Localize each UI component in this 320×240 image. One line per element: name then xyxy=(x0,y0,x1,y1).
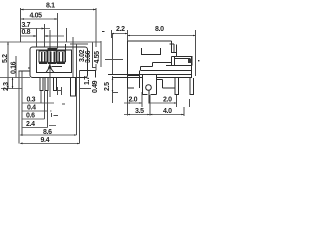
dim 2.3 vertical xyxy=(12,78,14,89)
svg-text:4.05: 4.05 xyxy=(30,13,43,20)
dim 8.6 line xyxy=(21,134,77,136)
dash y104 right xyxy=(62,103,65,105)
svg-text:2.0: 2.0 xyxy=(163,97,172,104)
svg-text:0.3: 0.3 xyxy=(27,97,36,104)
dim 0.3 line xyxy=(22,102,55,104)
arrow 5.2 ends xyxy=(7,42,9,89)
dim 8.1 line xyxy=(21,9,97,11)
side step right of block xyxy=(157,80,176,89)
svg-text:0.49: 0.49 xyxy=(92,80,99,93)
side step y66.5 xyxy=(141,67,153,71)
side handle step xyxy=(172,41,177,57)
right ear xyxy=(80,71,97,78)
tick x51.5 xyxy=(51,113,53,117)
side bracket top y70.5 xyxy=(141,70,192,72)
side bracket line y74.5 xyxy=(108,74,192,76)
svg-text:4.55: 4.55 xyxy=(94,51,101,64)
front inner rect xyxy=(37,50,72,73)
ext x66.5 xyxy=(66,28,68,42)
arrow 2.3 ends xyxy=(12,78,14,89)
ext x76.5 xyxy=(76,44,78,135)
svg-text:5.2: 5.2 xyxy=(2,54,9,63)
window 1 frame xyxy=(39,51,47,62)
dim 5.2 vertical xyxy=(7,42,9,89)
side tick x189.5 xyxy=(189,99,191,107)
left ear xyxy=(19,68,31,71)
dim 4.0 line xyxy=(150,114,184,116)
dash x102 y31.5 xyxy=(102,31,105,32)
front big right pin xyxy=(71,78,76,97)
side body left xyxy=(127,41,129,88)
detent diagonals xyxy=(46,67,62,73)
dash y115.5 xyxy=(54,115,59,117)
arrow 8.6 left xyxy=(20,134,23,136)
dim 0.16 vertical xyxy=(15,56,17,78)
svg-text:9.4: 9.4 xyxy=(41,137,50,144)
front pin 2 xyxy=(45,78,48,91)
dim 3.5 line xyxy=(124,114,150,116)
arrow 2.0b right xyxy=(174,102,177,104)
front body outline xyxy=(30,47,88,78)
side body top xyxy=(128,40,172,42)
dim 4.05 line xyxy=(21,18,58,20)
svg-text:3.7: 3.7 xyxy=(22,22,31,29)
dim 9.4 line xyxy=(22,143,80,145)
ext x79.5 xyxy=(79,71,81,144)
side handle ticks xyxy=(170,44,177,53)
arrow 4.0 ends xyxy=(150,114,153,116)
side left long ext xyxy=(112,34,114,103)
center line front xyxy=(49,30,51,97)
dim 0.6 line xyxy=(22,118,45,120)
dim 2.4 line xyxy=(22,127,48,129)
svg-text:0.4: 0.4 xyxy=(27,105,36,112)
side bottom left xyxy=(128,87,135,89)
ext x44.5 upper xyxy=(44,24,46,47)
projection line y42 xyxy=(0,41,101,43)
arrow 0.8 left xyxy=(34,35,37,37)
dim 0.8 right segment xyxy=(45,35,65,37)
side tick x176.5 xyxy=(176,95,178,107)
svg-text:8.6: 8.6 xyxy=(43,129,52,136)
side ext y92.5 xyxy=(113,92,119,94)
svg-text:0.6: 0.6 xyxy=(26,113,35,120)
ext y44 right xyxy=(70,43,88,45)
arrow 8.6 right xyxy=(74,134,77,136)
tick x61.5 xyxy=(61,87,63,95)
tick x44.5 lower xyxy=(44,91,46,119)
side hatch square xyxy=(188,59,192,64)
side bracket line y77.5 xyxy=(113,77,192,79)
dot right margin xyxy=(198,60,199,61)
arrow 2.5 ends xyxy=(112,78,114,93)
svg-text:2.2: 2.2 xyxy=(116,26,125,33)
ext x101 xyxy=(100,41,102,67)
arrow 9.4 right xyxy=(77,143,80,145)
side dim 2.2 left ext xyxy=(111,30,113,38)
dim 8.0 line xyxy=(128,35,196,37)
arrow 3.5 ends xyxy=(128,114,131,116)
projection line y77.5 left xyxy=(0,77,30,79)
dim 0.8 line xyxy=(21,35,37,37)
detent arrow xyxy=(48,64,52,69)
side pin 2 xyxy=(190,78,194,95)
svg-text:2.3: 2.3 xyxy=(3,82,10,91)
side recess xyxy=(142,48,161,55)
side tick x149.75 (centerline) xyxy=(149,95,151,116)
svg-text:3.5: 3.5 xyxy=(135,108,144,115)
svg-text:2.4: 2.4 xyxy=(26,121,35,128)
side circle stem xyxy=(148,91,150,104)
ext x57.5 xyxy=(57,13,59,49)
ext x36.5 xyxy=(36,28,38,47)
side upper block xyxy=(172,57,193,66)
svg-text:3.66: 3.66 xyxy=(85,50,92,63)
left ext x19 xyxy=(18,71,20,144)
left ext x22 xyxy=(21,71,23,135)
side tick x141.75 xyxy=(141,92,143,107)
side center block xyxy=(143,75,157,95)
arrow 2.0a ends xyxy=(128,102,131,104)
front pin 3 xyxy=(54,78,57,91)
svg-text:8.1: 8.1 xyxy=(46,3,55,10)
knob bars xyxy=(51,52,54,63)
side tick x183.75 xyxy=(183,107,185,116)
svg-text:0.8: 0.8 xyxy=(22,29,31,36)
dim 2.2 line xyxy=(112,33,128,35)
svg-text:8.0: 8.0 xyxy=(155,26,164,33)
extra vertical x65.6 xyxy=(65,44,67,62)
tick x41 xyxy=(40,91,42,103)
arrow 9.4 left xyxy=(20,142,23,144)
svg-text:1.7: 1.7 xyxy=(84,76,91,85)
dim 2.0 a line xyxy=(124,102,142,104)
dash y67.5 (4.55 arrow) xyxy=(92,67,96,69)
arrow 4.05 right xyxy=(55,18,58,20)
ext y88.5 left xyxy=(1,88,22,90)
dash y88.5 right xyxy=(80,88,92,90)
ext x20.5 xyxy=(20,8,22,42)
dot right of 0.4 xyxy=(50,110,52,112)
side upper block inner line xyxy=(174,58,190,60)
window bottom bands xyxy=(39,62,65,64)
knob top edge xyxy=(48,49,56,51)
arrow 8.1 left xyxy=(21,9,24,11)
side step y62.5 xyxy=(153,63,172,67)
arrow 0.8 right xyxy=(45,35,48,37)
side ext y59.5 xyxy=(105,59,123,61)
svg-text:2.5: 2.5 xyxy=(104,82,111,91)
dim 4.55 vertical xyxy=(92,43,94,68)
window 3 frame xyxy=(57,51,65,62)
tick x47.5 lower xyxy=(47,91,49,128)
side upper block divider xyxy=(174,57,176,66)
side lower-left ledge xyxy=(128,71,140,89)
dim 3.7 line xyxy=(21,28,51,30)
arrow 8.0 ends xyxy=(128,35,131,37)
side pin 1 xyxy=(175,78,179,95)
svg-text:4.0: 4.0 xyxy=(163,108,172,115)
side circle xyxy=(146,85,152,91)
front pin 1 xyxy=(40,78,43,91)
arrow 3.7 right xyxy=(42,28,45,30)
side left edge ext up and down xyxy=(127,30,129,116)
ext x96 xyxy=(95,8,97,71)
ext x73 xyxy=(72,37,74,78)
window 3 bars xyxy=(59,52,62,62)
side right edge xyxy=(191,57,193,79)
arrow 4.05 left xyxy=(21,18,24,20)
side dim 8.0 right ext xyxy=(195,30,197,76)
side block bottom xyxy=(166,65,192,67)
svg-text:0.16: 0.16 xyxy=(11,61,18,74)
arrow 8.1 right xyxy=(93,9,96,11)
dash y90.5 xyxy=(58,90,61,92)
arrow 2.2 ends xyxy=(112,33,115,35)
knob outline xyxy=(48,49,56,64)
dash right of 2.4 xyxy=(49,125,56,127)
dim 2.0 b line xyxy=(150,102,177,104)
window 1 bars xyxy=(42,52,45,62)
dim 0.4 line xyxy=(22,110,49,112)
tick x57.5 xyxy=(57,87,59,95)
